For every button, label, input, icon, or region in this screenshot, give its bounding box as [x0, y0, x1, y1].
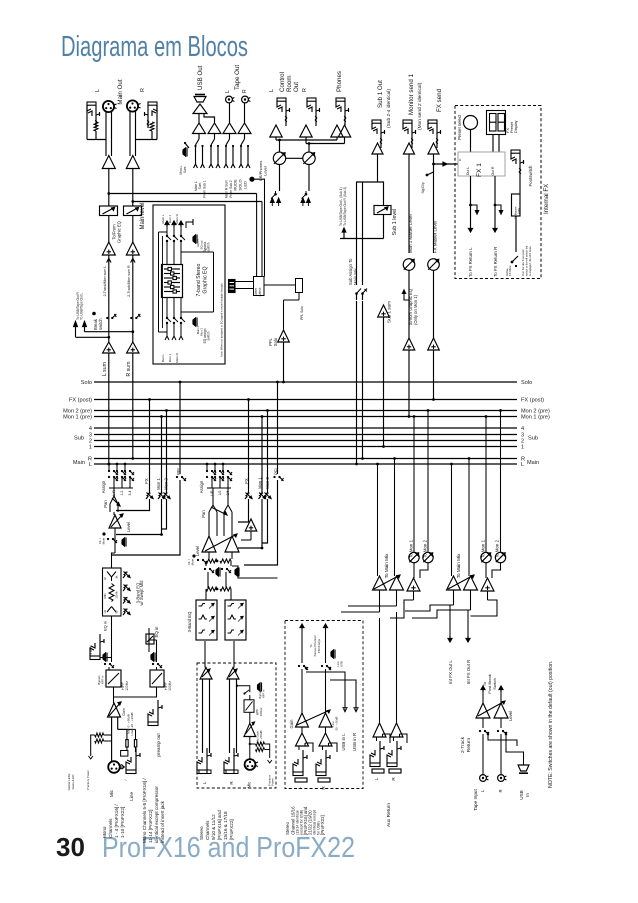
jack preamp out	[148, 722, 158, 726]
op-amp stereo mic gain	[249, 712, 251, 723]
svg-text:Mon 2: Mon 2	[265, 477, 270, 489]
svg-text:Main Mix: Main Mix	[353, 267, 358, 285]
svg-text:1-2: 1-2	[120, 490, 124, 495]
svg-text:In: In	[458, 158, 462, 161]
svg-text:11-14 [ProFX22]: 11-14 [ProFX22]	[148, 810, 153, 843]
svg-text:USB in L: USB in L	[341, 733, 346, 751]
op-amp R sum	[127, 342, 139, 353]
bus Mon 1 (pre) line	[94, 416, 517, 418]
svg-text:EQ in: EQ in	[154, 626, 159, 638]
svg-text:Mono: Mono	[102, 826, 107, 838]
connector Tape Input L RCA	[480, 775, 487, 782]
connector XLR Main Out L	[103, 101, 114, 112]
wire mon sum to bus	[408, 350, 410, 417]
svg-text:Mute: Mute	[191, 558, 195, 565]
pot Mon 1 master	[403, 259, 415, 271]
op-amp CR L	[270, 125, 282, 137]
switch usb R source select	[214, 134, 216, 140]
svg-text:Line: Line	[129, 792, 134, 801]
mono FX send trim	[149, 400, 151, 494]
bus left labels	[63, 380, 92, 468]
pot CR/Phones level R	[303, 152, 315, 164]
stereo 15/16 dashed box	[285, 621, 363, 789]
svg-text:Mon 1 Master Level: Mon 1 Master Level	[408, 214, 413, 253]
svg-text:1-10 [ProFX22]: 1-10 [ProFX22]	[120, 807, 125, 838]
svg-text:Solo: Solo	[521, 380, 532, 386]
svg-text:USB in R: USB in R	[352, 733, 357, 751]
svg-text:Level: Level	[126, 522, 131, 532]
eq in/out bypass switches top	[166, 235, 168, 237]
switch HPF bypass (mono)	[104, 663, 106, 665]
connector Tape Input R RCA	[498, 775, 505, 782]
svg-text:Solo: Solo	[81, 380, 92, 386]
svg-text:Footswitch: Footswitch	[528, 165, 533, 187]
op-amp g2 main R	[464, 576, 478, 590]
svg-text:To USB/Tape Out L: To USB/Tape Out L	[80, 292, 84, 320]
svg-text:Mic: Mic	[247, 782, 252, 789]
wire fx pot down	[433, 270, 435, 338]
wire CR/phones R feed	[305, 137, 307, 144]
svg-text:2-Track/Mon sum L: 2-Track/Mon sum L	[103, 266, 107, 297]
op-amp mon send driver	[404, 143, 415, 154]
wire fx1 out R down	[494, 176, 496, 225]
wire main L to fader	[108, 169, 110, 207]
op-amp g2 main L	[447, 576, 461, 590]
FX preset display	[487, 111, 506, 135]
svg-text:1: 1	[89, 445, 92, 451]
op-amp Sub 1 sum	[378, 305, 390, 317]
svg-text:L: L	[95, 89, 101, 92]
svg-text:[ProFX22]: [ProFX22]	[229, 819, 234, 840]
svg-text:-20 - +20dB: -20 - +20dB	[335, 717, 339, 732]
switch usb L source select	[198, 134, 200, 140]
Int FX Out L stub	[449, 605, 451, 638]
svg-text:[ProFX22]: [ProFX22]	[320, 815, 325, 835]
svg-text:Pan: Pan	[103, 500, 108, 508]
svg-text:9/10 & 11/12: 9/10 & 11/12	[211, 814, 216, 840]
mono channel assign switches	[108, 470, 110, 472]
svg-text:Assign: Assign	[199, 480, 204, 493]
svg-text:Assign: Assign	[101, 480, 106, 493]
wire fx send down	[433, 154, 435, 253]
stereo phantom resistors	[256, 742, 265, 746]
wire sub assign to buses	[356, 301, 358, 464]
connector Tape Out L RCA	[226, 96, 233, 103]
svg-text:Logic: Logic	[517, 207, 521, 214]
wire preset to fx1	[470, 130, 472, 153]
g2 pot wires	[485, 563, 487, 578]
knob Preset select	[464, 116, 478, 130]
op-amp phones L R	[331, 125, 343, 137]
svg-text:15/16 & 17/18: 15/16 & 17/18	[223, 811, 228, 840]
bus Sub 4 line	[94, 427, 517, 429]
2-track switches	[482, 718, 484, 728]
svg-text:preamp out: preamp out	[156, 733, 161, 757]
svg-text:FX 1: FX 1	[476, 163, 483, 177]
svg-text:Main Out: Main Out	[117, 79, 124, 104]
op-amp sub 1 out driver	[372, 143, 383, 154]
svg-text:Display: Display	[514, 120, 518, 133]
wire balanced pair main L	[105, 112, 107, 156]
block stereo EQ L	[196, 600, 217, 640]
junction main L tap	[107, 192, 110, 195]
svg-text:1 - 4 [ProFX16] /: 1 - 4 [ProFX16] /	[114, 804, 119, 838]
mono Mon2 send trim	[166, 411, 168, 494]
svg-text:Pan: Pan	[201, 510, 206, 518]
15/16 second amps	[301, 727, 303, 733]
svg-text:Mon 1: Mon 1	[168, 354, 172, 363]
svg-text:To Main Mix: To Main Mix	[384, 553, 389, 578]
svg-text:1: 1	[521, 445, 524, 451]
svg-text:From Sub 1: From Sub 1	[203, 180, 207, 197]
svg-text:L: L	[269, 89, 275, 92]
svg-text:identical except compressor: identical except compressor	[154, 786, 159, 843]
svg-text:PFL Solo: PFL Solo	[300, 306, 304, 320]
svg-text:Graphic EQ: Graphic EQ	[203, 266, 209, 293]
op-amp fx send driver	[428, 143, 439, 154]
connector stereo Mic XLR	[249, 737, 251, 760]
wire sum R down to break switch	[132, 255, 134, 313]
stereo resistor row 2	[206, 587, 217, 591]
op-amp tape L	[223, 123, 236, 134]
svg-text:30: 30	[56, 832, 85, 862]
svg-text:HPF in: HPF in	[262, 689, 266, 698]
jack 15/16 R	[316, 772, 326, 776]
stereo mic join wire	[237, 686, 250, 693]
wire R sum to Main R bus	[132, 353, 134, 459]
op-amp usb sum R	[208, 123, 221, 134]
2-track level amps	[476, 703, 490, 718]
jack Main Out L (TRS)	[87, 102, 96, 105]
svg-text:USB Out: USB Out	[197, 65, 204, 90]
group1 wires from buses	[377, 464, 379, 576]
switch stereo HPF bypass	[243, 692, 245, 694]
svg-text:100Hz: 100Hz	[125, 681, 129, 691]
mono Mon1 send trim	[161, 417, 163, 494]
svg-text:Int FX Out L: Int FX Out L	[448, 660, 453, 684]
svg-text:FX (post): FX (post)	[521, 398, 544, 404]
svg-text:Main: Main	[527, 460, 539, 466]
svg-text:To FX Return R: To FX Return R	[493, 247, 498, 277]
svg-text:100-8k: 100-8k	[116, 591, 119, 599]
svg-text:Sum: Sum	[183, 166, 187, 173]
svg-text:FX Mute: FX Mute	[508, 265, 512, 276]
graphic EQ slider icon	[162, 265, 183, 298]
block stereo EQ R	[225, 600, 246, 640]
jack mono Line	[126, 770, 136, 774]
fader Main level L	[100, 206, 118, 216]
preamp out substrip	[114, 687, 157, 697]
bus Sub 3 line	[94, 434, 517, 436]
svg-text:Main: Main	[73, 460, 85, 466]
svg-text:Out R: Out R	[491, 166, 495, 175]
svg-text:R: R	[140, 88, 146, 92]
connector Tape Out R RCA	[242, 96, 249, 103]
svg-text:Switch: Switch	[492, 678, 497, 690]
svg-text:Sub: Sub	[528, 436, 538, 442]
svg-text:4: 4	[521, 426, 524, 432]
op-amp g1 mon sum	[407, 578, 420, 591]
svg-text:Sub 1 sum: Sub 1 sum	[387, 301, 392, 323]
svg-text:LED: LED	[243, 181, 248, 189]
svg-text:Channels: Channels	[205, 820, 210, 840]
jack 15/16 L	[293, 772, 303, 776]
svg-text:is engaged, the eFX mute: is engaged, the eFX mute	[528, 246, 532, 276]
svg-text:Return: Return	[466, 737, 472, 752]
junction main R tap	[131, 200, 134, 203]
connector USB In	[518, 765, 529, 771]
pot To Mon 2 g1	[423, 552, 433, 562]
wire sub fader down	[383, 215, 385, 239]
pot To Mon 2 g2	[495, 552, 505, 562]
pot CR/Phones level L	[273, 152, 285, 164]
svg-text:FX Master Level: FX Master Level	[433, 221, 438, 253]
svg-text:L/R: L/R	[210, 490, 214, 496]
svg-text:15/16 EQs: 15/16 EQs	[317, 638, 321, 653]
stereo channel assign switches	[206, 470, 208, 472]
svg-text:L: L	[374, 777, 379, 780]
svg-text:R: R	[302, 88, 308, 92]
wire rude solo led	[255, 179, 265, 276]
stereo Mon1 send trim	[261, 417, 263, 494]
block mono 3-band EQ	[103, 568, 122, 616]
op-amp tape R	[238, 123, 251, 134]
chevron under sum R	[131, 259, 135, 263]
svg-text:Phantom Power: Phantom Power	[86, 770, 90, 790]
bus Solo line	[94, 381, 517, 383]
wire display to fx1	[492, 135, 494, 153]
svg-text:R: R	[498, 789, 503, 792]
switch mon L sum tap	[184, 142, 186, 144]
svg-text:Mon L: Mon L	[161, 354, 165, 363]
switch Sub assign to main mix	[356, 239, 358, 286]
svg-text:4: 4	[89, 426, 92, 432]
svg-text:PFL: PFL	[176, 466, 181, 474]
svg-text:Phones: Phones	[336, 71, 343, 92]
svg-text:Main R Sum: Main R Sum	[225, 180, 229, 198]
break switch LED	[92, 312, 96, 316]
block FX bypass logic	[519, 178, 521, 194]
connector XLR Main Out R	[127, 100, 138, 111]
switch Line/USB	[331, 650, 334, 658]
op-amp g1 main L	[373, 576, 387, 590]
wire fx1 taps to bypass	[469, 204, 472, 207]
switch tape R source select	[244, 134, 246, 140]
aux return wires	[379, 618, 381, 723]
op-amp g1 main R	[390, 576, 404, 590]
jack FX send	[428, 120, 437, 123]
svg-text:Mic: Mic	[109, 789, 114, 797]
wire tap R to monitor select	[133, 201, 262, 203]
svg-text:Select: Select	[258, 287, 262, 296]
svg-text:switch or the eff switch led: switch or the eff switch led	[525, 245, 529, 276]
svg-text:FX: FX	[244, 478, 249, 484]
stereo jack rails R	[229, 679, 231, 753]
svg-text:Power: Power	[271, 778, 275, 786]
svg-text:L: L	[202, 781, 207, 784]
mono level amp	[113, 512, 115, 515]
connector USB Out	[194, 97, 206, 103]
svg-text:To USB/Tape Out R (Sub 2): To USB/Tape Out R (Sub 2)	[343, 187, 347, 226]
svg-text:Control: Control	[279, 72, 286, 92]
op-amp PFL solo	[278, 330, 290, 342]
op-amp 2-track/mon sum L	[108, 216, 110, 243]
svg-text:PFL: PFL	[274, 466, 279, 474]
svg-text:Gain+/LED: Gain+/LED	[71, 774, 75, 790]
15/16 switches	[298, 665, 300, 667]
aux return amps	[373, 723, 386, 737]
svg-text:/: /	[124, 779, 128, 780]
bus right labels	[521, 380, 550, 468]
wire sum L down to break switch	[108, 255, 110, 313]
switch monitor source select cluster	[274, 193, 277, 196]
svg-text:Channels: Channels	[108, 818, 113, 838]
svg-text:Stereo: Stereo	[285, 822, 290, 835]
svg-text:R sum: R sum	[126, 362, 132, 377]
mono PFL switch	[179, 382, 181, 474]
svg-text:Sub: Sub	[74, 436, 84, 442]
block FX 1	[458, 152, 505, 176]
2-track up arrows	[482, 686, 484, 692]
op-amp g2 mon sum	[481, 578, 494, 591]
graphic EQ box	[153, 205, 225, 364]
svg-text:7-band Stereo: 7-band Stereo	[196, 263, 202, 296]
jack Monitor send 1	[403, 120, 412, 123]
svg-text:Aux Return: Aux Return	[386, 803, 392, 827]
mono pan pot	[113, 492, 115, 496]
bus Sub 1 line	[94, 446, 517, 448]
svg-text:Mon 1 (pre): Mon 1 (pre)	[63, 415, 92, 421]
15/16 up arrows to EQ	[301, 624, 303, 630]
svg-text:Sum: Sum	[198, 182, 202, 189]
stereo preamp L	[200, 668, 212, 680]
svg-text:Sig/Clip: Sig/Clip	[421, 182, 425, 193]
svg-text:L: L	[297, 786, 302, 789]
svg-text:L: L	[225, 90, 231, 93]
wire tape out R	[244, 103, 246, 123]
wire pot link	[286, 157, 303, 159]
USB in L/R stubs	[306, 672, 345, 712]
svg-text:1/2: 1/2	[218, 491, 222, 496]
svg-text:Level: Level	[195, 546, 200, 556]
svg-text:EQ in: EQ in	[103, 621, 108, 631]
pot FX master	[428, 259, 440, 271]
svg-text:3-Band EQ: 3-Band EQ	[187, 611, 192, 632]
bus Mon 2 (pre) line	[94, 410, 517, 412]
svg-text:switch: switch	[207, 242, 211, 251]
pot To Mon 1 g1	[409, 552, 419, 562]
op-amp fx master sum	[428, 338, 440, 350]
svg-text:100Hz: 100Hz	[168, 681, 172, 691]
stereo mute	[192, 554, 195, 557]
stereo solo sum amp	[245, 519, 257, 531]
svg-text:HPF in: HPF in	[101, 675, 105, 684]
stereo FX send trim	[248, 400, 250, 494]
Int FX Out R stub	[467, 610, 469, 638]
bus Main L line	[94, 463, 517, 465]
wire tap L to monitor select	[109, 193, 257, 195]
mono preamp	[113, 687, 115, 703]
jack stereo R	[224, 770, 234, 774]
svg-text:Stereo: Stereo	[199, 826, 204, 840]
15/16 input wiring	[298, 746, 300, 750]
op-amp CR R	[300, 125, 312, 137]
stereo switches row	[204, 568, 206, 570]
eq assign switches bottom	[166, 298, 168, 319]
svg-text:Note: When not assigned to EQ: Note: When not assigned to EQ signal is …	[219, 283, 223, 357]
svg-text:Sub 1 Out: Sub 1 Out	[377, 80, 384, 108]
op-amp main R output driver	[126, 156, 139, 169]
jack aux return L	[370, 763, 380, 767]
svg-text:Mon 1: Mon 1	[168, 215, 172, 224]
jack aux return R	[387, 763, 397, 767]
svg-text:Out L: Out L	[466, 167, 470, 175]
meter LED column icon	[229, 280, 236, 293]
mono phantom resistors	[95, 733, 104, 737]
svg-text:Main R: Main R	[175, 352, 179, 362]
svg-text:L sum: L sum	[102, 362, 108, 376]
stereo level amps	[208, 518, 210, 536]
svg-text:R: R	[242, 89, 248, 93]
svg-text:Graphic EQ: Graphic EQ	[117, 220, 122, 243]
aux return input wiring	[376, 737, 378, 741]
svg-text:Line: -20 - +30dB: Line: -20 - +30dB	[130, 712, 134, 735]
op-amp L sum	[103, 342, 115, 353]
wire mon pot down	[408, 270, 410, 338]
op-amp USB out driver	[193, 104, 207, 114]
group2 wires from buses	[451, 464, 453, 576]
op-amp 2-track/mon sum R	[132, 216, 134, 243]
connector mono Mic XLR	[108, 761, 120, 773]
wire balanced pair main R	[129, 112, 131, 157]
stereo jack rails L	[202, 679, 204, 753]
svg-text:Level: Level	[508, 711, 513, 721]
jack Sub 1 Out	[372, 120, 381, 123]
svg-text:FX send: FX send	[436, 88, 443, 112]
switch FX mute	[515, 216, 517, 252]
block HPF mono	[108, 667, 110, 670]
svg-text:Gain: Gain	[122, 708, 126, 716]
pot To Mon 1 g2	[481, 552, 491, 562]
svg-text:FX: FX	[144, 478, 149, 484]
eq bypass loop wires	[158, 232, 160, 332]
svg-text:(Mon send 2 identical): (Mon send 2 identical)	[417, 82, 423, 130]
svg-text:If on the dev b set point: If on the dev b set point	[521, 249, 525, 276]
svg-text:HI: HI	[103, 577, 107, 580]
svg-text:2-Track/Mon sum R: 2-Track/Mon sum R	[127, 265, 131, 297]
svg-text:Mon 1: Mon 1	[258, 477, 263, 489]
mono eq connect	[112, 553, 116, 568]
svg-text:USB: USB	[519, 790, 524, 799]
bus Sub 2 line	[94, 440, 517, 442]
stereo preamp R	[227, 668, 239, 680]
stereo pan	[209, 505, 217, 512]
bus FX (post) line	[94, 399, 517, 401]
svg-text:Solo: Solo	[273, 337, 278, 346]
svg-text:MID: MID	[103, 593, 107, 598]
svg-text:3/4: 3/4	[226, 491, 230, 496]
svg-text:Sub 1 level: Sub 1 level	[392, 209, 398, 236]
wire main R to fader	[132, 169, 134, 207]
svg-text:In: In	[525, 793, 530, 797]
jack Main Out R (TRS)	[148, 102, 157, 105]
bus Main R line	[94, 458, 517, 460]
svg-text:FX (post): FX (post)	[69, 398, 92, 404]
svg-text:Tape Out: Tape Out	[234, 65, 241, 90]
svg-text:Tape Input: Tape Input	[473, 789, 478, 811]
svg-text:Internal FX: Internal FX	[543, 184, 550, 214]
switch break L	[108, 313, 110, 318]
